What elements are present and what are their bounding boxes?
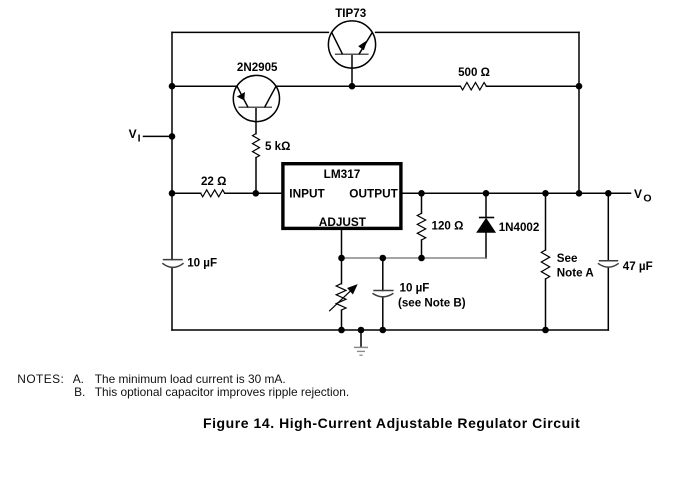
node: 1N4002 / output rail xyxy=(483,190,490,197)
wire: adjust rail (ADJUST to 1N4002) xyxy=(342,257,487,259)
svg-text:Note A: Note A xyxy=(557,267,595,280)
svg-text:10 µF: 10 µF xyxy=(400,282,430,295)
node: second rail / right vertical xyxy=(576,83,583,90)
op-amp U1 LM317 regulator box xyxy=(283,164,401,229)
wire: left rail lower (input cap to bottom rail) xyxy=(171,268,173,331)
capacitor 10uF (input) xyxy=(162,260,183,268)
node: note-A resistor / bottom rail xyxy=(542,327,549,334)
diode 1N4002 xyxy=(477,218,495,233)
svg-text:V: V xyxy=(634,187,642,201)
wire: TIP73 base drop to second rail xyxy=(351,54,353,86)
resistor 5 kohm xyxy=(253,134,260,158)
resistor 500 ohm xyxy=(460,83,486,90)
wire: top rail left segment xyxy=(172,31,328,33)
wire: see-note-A resistor bottom lead xyxy=(545,279,547,330)
svg-text:See: See xyxy=(557,252,578,265)
node: variable resistor / bottom rail xyxy=(338,327,345,334)
wire: right vertical (top rail down to output rail) xyxy=(578,32,580,193)
node: left rail / second rail xyxy=(169,83,176,90)
wire: top rail right segment to right corner xyxy=(376,31,579,33)
wire: 120 ohm bottom lead xyxy=(421,240,423,258)
wire: ground stub xyxy=(360,330,362,347)
wire: ADJUST pin drop xyxy=(341,230,343,258)
transistor Q1 TIP73 (NPN) xyxy=(328,21,375,68)
wire: 5k resistor to input rail junction xyxy=(255,158,257,194)
resistor see-note-A xyxy=(541,250,549,279)
node: 120 ohm / output rail xyxy=(418,190,425,197)
wire: left rail upper (top rail to input cap) xyxy=(171,32,173,259)
svg-text:500 Ω: 500 Ω xyxy=(458,66,490,79)
wire: second rail, 2N2905 to 500 ohm xyxy=(276,85,460,87)
svg-text:5 kΩ: 5 kΩ xyxy=(265,140,290,153)
node: 47uF / output rail xyxy=(605,190,612,197)
wire: second rail, 500 ohm to right vertical xyxy=(486,85,579,87)
node: left rail / input rail xyxy=(169,190,176,197)
node: 5k / input rail xyxy=(253,190,260,197)
wire: variable resistor bottom lead xyxy=(341,310,343,330)
svg-text:1N4002: 1N4002 xyxy=(499,221,540,234)
wire: 1N4002 top lead xyxy=(485,193,487,217)
svg-text:O: O xyxy=(643,193,651,205)
wire: 1N4002 bottom lead down to adjust rail xyxy=(485,232,487,258)
resistor 22 ohm xyxy=(201,190,225,197)
wire: input rail, 22 ohm to LM317 INPUT xyxy=(225,192,282,194)
svg-text:2N2905: 2N2905 xyxy=(237,61,278,74)
node: 120 ohm / adjust rail xyxy=(418,255,425,262)
wire: 10uF noteB cap top lead xyxy=(382,258,384,291)
transistor Q2 emitter arrow xyxy=(237,92,245,100)
node: 10uF noteB / adjust rail xyxy=(380,255,387,262)
node: ADJUST / adjust rail xyxy=(338,255,345,262)
svg-text:47 µF: 47 µF xyxy=(623,260,653,273)
node: note-A resistor / output rail xyxy=(542,190,549,197)
node: ground / bottom rail xyxy=(358,327,365,334)
svg-text:LM317: LM317 xyxy=(324,167,361,181)
wire: bottom rail xyxy=(172,329,608,331)
ground xyxy=(354,347,368,355)
wire: 10uF noteB cap bottom lead xyxy=(382,298,384,330)
wire: output rail, LM317 OUTPUT to VO xyxy=(403,192,631,194)
node: right vertical / output rail xyxy=(576,190,583,197)
wire: second rail, left rail to 2N2905 xyxy=(172,85,237,87)
variable resistor arrow head xyxy=(347,284,358,294)
caption: Figure 14 xyxy=(203,416,580,430)
svg-text:V: V xyxy=(129,127,137,141)
variable resistor (adjust pot) xyxy=(329,284,351,312)
svg-text:I: I xyxy=(138,132,141,144)
node junction dots xyxy=(169,83,612,333)
svg-text:TIP73: TIP73 xyxy=(335,7,366,20)
wire: input rail, left rail to 22 ohm xyxy=(172,192,201,194)
svg-text:ADJUST: ADJUST xyxy=(319,215,367,229)
wire: see-note-A resistor top lead xyxy=(545,193,547,250)
svg-text:INPUT: INPUT xyxy=(289,187,325,201)
capacitor 47uF xyxy=(598,261,619,267)
svg-text:OUTPUT: OUTPUT xyxy=(349,187,398,201)
node: TIP73 base / second rail xyxy=(349,83,356,90)
wire: 47uF cap bottom lead xyxy=(607,268,609,331)
svg-text:120 Ω: 120 Ω xyxy=(432,220,464,233)
transistor Q2 2N2905 (PNP) xyxy=(233,75,279,121)
wire: 2N2905 base down to 5k resistor xyxy=(255,107,257,133)
svg-text:(see Note B): (see Note B) xyxy=(398,296,466,309)
capacitor 10uF note B xyxy=(373,291,394,297)
wire: variable resistor top lead xyxy=(341,258,343,284)
svg-text:10 µF: 10 µF xyxy=(187,257,217,270)
wire: VI tap xyxy=(144,135,173,137)
notes text block xyxy=(17,374,64,386)
node: 10uF noteB / bottom rail xyxy=(380,327,387,334)
resistor 120 ohm xyxy=(417,213,425,240)
node: VI tap xyxy=(169,133,176,140)
wire: 120 ohm top lead xyxy=(421,193,423,213)
wire: 47uF cap top lead xyxy=(607,193,609,260)
svg-text:22 Ω: 22 Ω xyxy=(201,175,226,188)
transistor Q1 emitter arrow xyxy=(358,40,367,50)
